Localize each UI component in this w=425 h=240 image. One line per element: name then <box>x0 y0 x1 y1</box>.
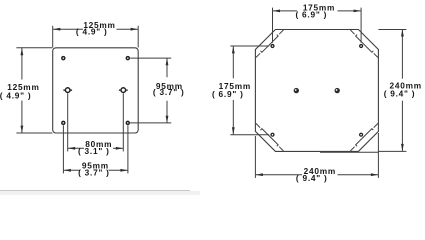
svg-text:( 6.9" ): ( 6.9" ) <box>212 89 244 99</box>
svg-text:( 9.4" ): ( 9.4" ) <box>384 88 416 98</box>
svg-text:( 4.9" ): ( 4.9" ) <box>76 27 108 37</box>
svg-text:( 9.4" ): ( 9.4" ) <box>296 173 328 183</box>
svg-text:( 4.9" ): ( 4.9" ) <box>0 91 31 101</box>
svg-text:( 3.7" ): ( 3.7" ) <box>78 168 110 178</box>
svg-text:( 3.1" ): ( 3.1" ) <box>78 146 110 156</box>
svg-text:( 3.7" ): ( 3.7" ) <box>153 87 185 97</box>
svg-text:( 6.9" ): ( 6.9" ) <box>295 10 327 20</box>
